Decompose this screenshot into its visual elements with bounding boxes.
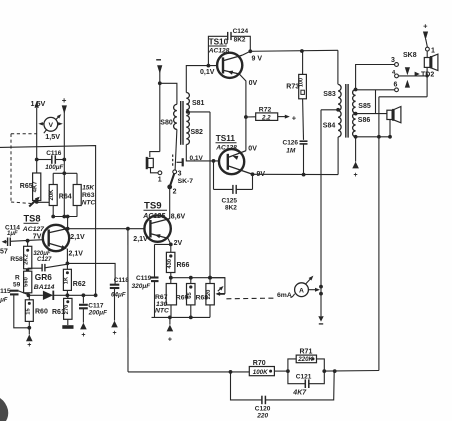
wire 1,5V rail with up arrow <box>35 101 39 173</box>
capacitor C115 <box>0 288 29 328</box>
svg-text:8K2: 8K2 <box>234 36 246 43</box>
svg-text:9 V: 9 V <box>252 55 263 62</box>
resistor R64 20K <box>49 173 72 216</box>
capacitor C118 64uF <box>110 277 129 321</box>
svg-text:+: + <box>112 330 116 337</box>
svg-text:3: 3 <box>391 57 395 64</box>
svg-text:C127: C127 <box>37 257 52 263</box>
transformer winding S83 <box>323 84 341 136</box>
svg-text:2,1V: 2,1V <box>133 236 148 243</box>
capacitor C117 200uF <box>79 293 107 322</box>
switch SK-7 <box>167 170 193 196</box>
svg-text:320μF: 320μF <box>132 283 152 290</box>
diode GR6 BA114 <box>27 272 68 300</box>
svg-text:NTC: NTC <box>155 308 169 315</box>
resistor R70 100K <box>249 360 289 376</box>
wire TS8 emitter node <box>67 263 115 284</box>
transistor TS8 <box>43 225 85 264</box>
node SK8 contact 3 <box>391 57 398 66</box>
svg-text:64μF: 64μF <box>111 292 126 299</box>
transistor TS11 AC128 label <box>215 134 237 151</box>
svg-text:R70: R70 <box>253 360 266 367</box>
svg-text:2V: 2V <box>174 240 183 247</box>
node - supply terminal <box>156 59 161 61</box>
svg-text:560: 560 <box>24 277 30 287</box>
svg-text:S86: S86 <box>358 117 371 124</box>
svg-text:S81: S81 <box>192 100 205 107</box>
wire TS11 collector 9V rail <box>251 137 339 177</box>
wire S81/S82 centre tap to R68 <box>186 110 210 278</box>
svg-text:0,1V: 0,1V <box>200 69 215 76</box>
jack plug symbol SK-7 <box>173 155 183 168</box>
node + supply terminal <box>62 96 67 105</box>
switch arrows SK8 <box>405 67 410 87</box>
capacitor C125 8K2 <box>214 161 253 212</box>
ground chassis arrow (centre tap) <box>318 316 323 324</box>
wire - rail with down arrow <box>157 65 162 151</box>
svg-text:15K: 15K <box>82 185 95 192</box>
resistor R59 560 <box>13 269 32 296</box>
svg-text:20K: 20K <box>49 189 55 201</box>
transistor TS9 <box>133 213 185 247</box>
svg-text:100μF: 100μF <box>45 164 63 171</box>
svg-text:S80: S80 <box>160 120 173 127</box>
svg-text:2,1V: 2,1V <box>70 234 85 241</box>
wire TS8 base <box>10 233 43 242</box>
svg-text:SK-7: SK-7 <box>178 178 194 185</box>
wire SK8 contact 4 to TD2 <box>399 67 429 96</box>
transformer winding S81 <box>186 93 204 145</box>
wire TS9 network bottom rail <box>152 316 211 320</box>
resistor R69 65 <box>176 278 195 320</box>
wire S86 bottom rail <box>356 120 392 139</box>
svg-text:S85: S85 <box>358 103 371 110</box>
svg-text:GR6: GR6 <box>35 272 52 282</box>
svg-text:4K7: 4K7 <box>33 181 39 193</box>
capacitor C120 220 <box>231 371 335 419</box>
resistor R67 130 NTC <box>155 284 177 318</box>
svg-text:S82: S82 <box>191 129 204 136</box>
svg-text:2: 2 <box>173 189 177 196</box>
wire GR6 node to boundary <box>67 293 97 297</box>
scan artifact corner <box>0 398 8 421</box>
resistor R60 15 <box>25 295 48 329</box>
svg-text:1μF: 1μF <box>7 231 18 237</box>
svg-text:C121: C121 <box>296 373 312 380</box>
svg-text:8,6V: 8,6V <box>171 213 186 220</box>
svg-text:100K: 100K <box>253 369 268 376</box>
wire dashed 6mA adjustment <box>226 292 294 299</box>
svg-text:1: 1 <box>431 47 435 54</box>
svg-text:100: 100 <box>299 78 305 87</box>
svg-text:R73: R73 <box>286 84 299 91</box>
wire feedback from TS9 base node <box>128 229 249 374</box>
wire S82 bottom to TS11 base <box>186 145 219 163</box>
svg-text:57: 57 <box>0 249 8 256</box>
svg-text:C125: C125 <box>222 197 238 204</box>
resistor R68 220 preset <box>196 276 225 318</box>
wire TS10 emitter 0V rail <box>239 74 248 151</box>
transformer winding S85 S86 <box>353 88 371 139</box>
svg-text:4K7: 4K7 <box>292 390 307 397</box>
svg-text:SK8: SK8 <box>403 52 417 59</box>
capacitor C114 1uF input <box>0 224 20 255</box>
svg-text:R58: R58 <box>10 256 23 263</box>
wire bias top rail <box>53 171 77 175</box>
capacitor C124 8K2 <box>208 28 250 66</box>
svg-text:R65: R65 <box>20 183 33 190</box>
svg-text:R60: R60 <box>35 309 48 316</box>
svg-text:R61: R61 <box>52 309 65 316</box>
wire S85 winding to SK8 contact 6 <box>356 90 395 114</box>
svg-text:2,2: 2,2 <box>261 114 271 121</box>
svg-text:R: R <box>15 275 20 282</box>
svg-text:R68: R68 <box>196 295 209 302</box>
svg-text:R63: R63 <box>82 192 95 199</box>
svg-text:200μF: 200μF <box>88 310 107 317</box>
wire bias bottom rail <box>51 215 77 229</box>
node SK8 contact 4 <box>392 70 398 78</box>
svg-text:3: 3 <box>178 171 182 178</box>
svg-text:R72: R72 <box>259 106 272 113</box>
voltmeter V 1,5V <box>38 114 63 141</box>
transistor TS8 AC127 label <box>22 214 45 234</box>
svg-text:1: 1 <box>158 177 162 184</box>
wire TS9 collector to SK-7 <box>169 187 171 219</box>
capacitor C127 320uF <box>28 251 68 271</box>
wire TS10 collector 9V rail <box>242 49 338 84</box>
wire dashed adjustment box <box>11 134 37 204</box>
resistor R66 430 <box>166 243 189 284</box>
svg-text:TS10: TS10 <box>209 37 229 46</box>
svg-text:6mA: 6mA <box>277 292 292 299</box>
transformer core (driver) <box>181 101 183 145</box>
wire TS8 collector to TS9 base <box>66 227 145 231</box>
svg-text:R69: R69 <box>176 295 189 302</box>
svg-text:0V: 0V <box>248 145 257 152</box>
loudspeaker TD2 label <box>415 72 435 79</box>
svg-text:R66: R66 <box>177 262 190 269</box>
svg-text:S84: S84 <box>323 122 336 129</box>
svg-text:TS11: TS11 <box>216 134 236 143</box>
svg-text:+: + <box>62 96 67 105</box>
svg-text:C120: C120 <box>255 406 271 413</box>
capacitor C121 4K7 <box>288 371 324 397</box>
svg-text:2K2: 2K2 <box>24 254 30 265</box>
svg-text:+: + <box>81 332 85 339</box>
resistor R58 2K2 <box>10 241 32 269</box>
svg-text:0V: 0V <box>249 80 258 87</box>
transistor TS9 AC125 label <box>142 201 167 221</box>
wire left boundary line <box>0 146 96 296</box>
transformer core (output) <box>346 84 348 138</box>
svg-text:C117: C117 <box>88 302 104 309</box>
svg-text:C118: C118 <box>114 277 130 284</box>
svg-text:C124: C124 <box>233 28 249 35</box>
transistor TS10 <box>217 53 262 87</box>
node 1,5V supply label <box>31 99 46 108</box>
earphone (telefoon) <box>146 152 162 184</box>
node SK8 contact 6 <box>394 81 399 91</box>
resistor R72 2,2 <box>246 106 297 122</box>
svg-text:+: + <box>27 342 31 349</box>
loudspeaker TD2 <box>424 54 438 70</box>
transistor TS11 <box>219 145 265 178</box>
resistor R62 1K <box>63 262 85 296</box>
svg-text:+: + <box>292 113 297 122</box>
node SK8 contact 1 <box>426 47 436 57</box>
ground arrow + (TS9 network) <box>167 317 174 343</box>
wire + rail with down arrow <box>62 105 67 216</box>
wire TD2 return to rail <box>379 97 427 371</box>
wire S85/S86 tap to loudspeaker <box>356 113 387 115</box>
svg-text:59: 59 <box>13 282 21 289</box>
svg-text:NTC: NTC <box>82 199 96 206</box>
svg-text:V: V <box>49 122 54 129</box>
svg-text:0,1V: 0,1V <box>190 155 204 162</box>
svg-text:C119: C119 <box>136 275 152 282</box>
svg-text:C116: C116 <box>46 150 62 157</box>
svg-text:C126: C126 <box>283 140 299 147</box>
svg-text:R71: R71 <box>300 349 313 356</box>
resistor R65 4K7 preset <box>20 173 53 207</box>
resistor R71 220K <box>288 349 326 373</box>
transformer winding S80 <box>160 104 177 169</box>
resistor R73 100 <box>286 51 306 140</box>
wire S83/S84 centre tap <box>321 108 340 316</box>
svg-text:220K: 220K <box>297 356 313 363</box>
svg-text:7V: 7V <box>33 233 42 240</box>
wire bottom rail to right <box>324 369 379 373</box>
svg-text:R64: R64 <box>59 194 72 201</box>
ground arrow + (C115/R60) <box>26 328 33 349</box>
svg-text:2,1V: 2,1V <box>69 251 84 258</box>
capacitor C119 320uF <box>132 244 171 317</box>
svg-text:1K: 1K <box>63 276 69 284</box>
wire S85 top to SK8 contact 3 <box>356 65 395 90</box>
ammeter A 6mA <box>295 276 323 297</box>
svg-text:BA114: BA114 <box>34 284 55 291</box>
wire TS9 emitter network top rail <box>171 276 225 280</box>
capacitor C126 1M <box>283 140 308 175</box>
svg-text:A: A <box>299 288 304 295</box>
svg-text:+: + <box>423 22 428 31</box>
svg-text:C115: C115 <box>0 288 11 295</box>
ground arrow + (C118) <box>111 321 118 337</box>
svg-text:TS8: TS8 <box>24 214 41 224</box>
resistor R63 15K NTC <box>73 173 95 216</box>
svg-text:6: 6 <box>394 81 398 88</box>
transistor TS10 AC128 label <box>208 37 230 54</box>
svg-text:1M: 1M <box>286 148 296 155</box>
svg-text:8K2: 8K2 <box>225 205 237 212</box>
svg-text:220: 220 <box>256 413 268 420</box>
wire S81 top to TS10 base <box>186 64 217 93</box>
loudspeaker (internal) <box>387 107 401 123</box>
ground bar (R61) <box>62 325 73 329</box>
node + terminal (TD2) <box>423 22 428 48</box>
connector SK8 label <box>403 52 417 59</box>
ground arrow + (S86) <box>352 137 359 179</box>
svg-text:μF: μF <box>0 298 8 304</box>
svg-text:R62: R62 <box>73 281 86 288</box>
svg-text:430: 430 <box>167 259 173 269</box>
svg-text:S83: S83 <box>323 91 336 98</box>
svg-text:+: + <box>168 337 172 344</box>
ground arrow + (C117) <box>80 323 87 339</box>
svg-text:15: 15 <box>25 308 31 315</box>
resistor R61 270 <box>52 293 72 325</box>
wire to S80 primary <box>160 83 177 104</box>
capacitor C116 100uF <box>35 150 66 171</box>
svg-text:+: + <box>354 172 358 179</box>
svg-text:1,5V: 1,5V <box>45 132 60 141</box>
svg-text:AC127: AC127 <box>22 226 45 233</box>
